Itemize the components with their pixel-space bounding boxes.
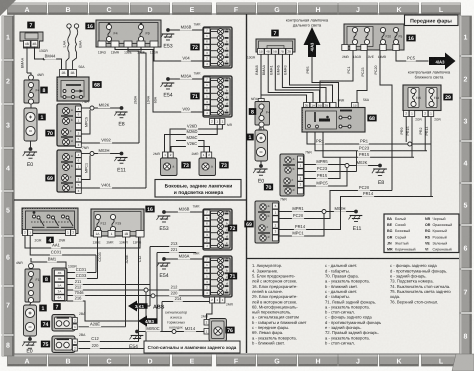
wire 213 bbox=[150, 241, 203, 247]
wire MPC1 bbox=[82, 156, 91, 180]
component label 69 right bbox=[244, 221, 253, 228]
splice M02K bbox=[82, 102, 124, 110]
wire BAA with connector circles bbox=[73, 24, 83, 70]
note: brake pad wear indicator bbox=[165, 311, 187, 330]
wire CC03 bbox=[67, 237, 102, 279]
component label 70 bbox=[45, 130, 54, 137]
wire PC23 (lamp) bbox=[304, 151, 357, 172]
component label 73 left bbox=[181, 162, 190, 169]
wire LAA with connector circles bbox=[63, 24, 72, 70]
stop switch 74 bbox=[41, 312, 86, 331]
wire PC23 bbox=[315, 132, 427, 151]
connector 7 (lamp plug) bbox=[20, 22, 48, 53]
arrow 4/A3 right (to low beam indicator) bbox=[429, 53, 456, 70]
component label 72 bbox=[190, 44, 199, 51]
section divider vertical bbox=[246, 14, 248, 353]
connector 7 (lower) bbox=[52, 265, 77, 311]
rear lamp connector 72 (right) bbox=[203, 27, 232, 68]
fuse box 16 (F12/F29) bbox=[91, 206, 155, 245]
caption: stop lamps and reversing lamps bbox=[144, 341, 240, 353]
rear lamp connector 71 (left) bbox=[203, 76, 232, 117]
wire 212 junction bbox=[144, 285, 203, 349]
wire 214 bbox=[162, 296, 220, 332]
ground E54 (lower section) / wire M26A bbox=[157, 252, 203, 280]
wire BMAA bbox=[262, 54, 313, 102]
ground E8 bbox=[114, 112, 127, 128]
lamp unit 69 (right side/rear lamps) bbox=[57, 146, 89, 193]
connector 71 lower bottom pins bbox=[210, 297, 234, 307]
battery 1 (right section) bbox=[246, 128, 267, 162]
wire BM45 bbox=[276, 54, 326, 102]
ground E0 (lower) bbox=[22, 336, 36, 355]
wire A28E bbox=[79, 237, 130, 327]
title box: front headlamps bbox=[405, 15, 459, 26]
component label 70 right bbox=[264, 184, 273, 191]
wire M26D bbox=[165, 125, 218, 153]
wire BM41 bbox=[269, 54, 319, 102]
wire PC20 bbox=[279, 185, 393, 219]
wire V26D bbox=[170, 124, 222, 153]
fuse box 5 (engine bay, right section) bbox=[249, 93, 270, 132]
splice M02H bbox=[82, 148, 124, 156]
wire BM48 bbox=[255, 54, 307, 102]
fuse box 8 (F4) bbox=[24, 73, 48, 104]
wire BM1 bbox=[31, 257, 66, 269]
wire MPC1 (right) bbox=[279, 214, 325, 237]
wire V26C bbox=[171, 141, 210, 152]
component label 73 right bbox=[219, 162, 228, 169]
lamp unit 70 (left side/rear lamps) bbox=[57, 100, 89, 147]
ground E54 (lower) bbox=[129, 336, 143, 351]
component label 72 lower bbox=[228, 225, 237, 232]
wire colour code box bbox=[384, 214, 459, 253]
wire PR1 bbox=[307, 132, 431, 146]
legend list bbox=[252, 263, 451, 345]
reverse switch 75 bbox=[41, 333, 86, 353]
battery 1 (lower) bbox=[24, 303, 47, 337]
wire V09 bbox=[115, 47, 203, 112]
component label 71 bbox=[190, 93, 199, 100]
fuse box 16 (F4/F9) bbox=[85, 20, 161, 55]
connector 71 bottom pins 2/1/1 bbox=[210, 119, 233, 128]
arrow 4/A3 up (to main beam indicator) bbox=[304, 27, 321, 57]
component label 71 lower bbox=[228, 273, 237, 280]
wire V401 bbox=[82, 183, 147, 189]
wire PR15 (lamp) bbox=[304, 157, 341, 179]
note: low beam indicator lamp bbox=[408, 70, 451, 80]
front lamp unit 69 (right section) bbox=[255, 198, 287, 244]
switch 68 (lighting switch) bbox=[57, 65, 102, 101]
arrow 4/B3 bbox=[138, 316, 158, 327]
wire MPC5 bbox=[82, 110, 91, 134]
wire V401 vertical bbox=[141, 47, 151, 188]
front lamp unit 70 (right section) bbox=[280, 151, 312, 197]
wire 212 / 221 vertical bbox=[67, 253, 157, 322]
wire BM43 bbox=[284, 54, 333, 102]
fuse box 16 (headlights) bbox=[342, 24, 416, 59]
ground E8 (right section) bbox=[372, 169, 387, 186]
wire V092 vertical bbox=[128, 47, 139, 143]
wire PC5 bbox=[396, 51, 429, 62]
wire PR9 bbox=[400, 117, 406, 143]
instrument cluster connector 7 bbox=[247, 30, 295, 60]
wire V04 bbox=[154, 47, 203, 61]
wire 216 bbox=[67, 296, 139, 322]
ground E53 (lower) / wire M26B bbox=[157, 205, 203, 233]
wire PR15 vertical label bbox=[406, 127, 410, 136]
ground E11 bbox=[114, 158, 127, 174]
high stop lamp 76 bbox=[201, 303, 226, 341]
wire 220 (switch 75) bbox=[79, 343, 147, 349]
wire PC20 vertical bbox=[374, 51, 392, 191]
wire PC23 vertical bbox=[357, 51, 367, 103]
ground E11 (right section) bbox=[349, 216, 363, 233]
legend panel top edge bbox=[247, 258, 459, 260]
rear lamp connector 71 (lower) bbox=[203, 256, 232, 297]
wire PR14 vertical label bbox=[425, 127, 429, 136]
ignition switch 4 bbox=[22, 208, 78, 244]
relay box 29 (F15/F14) bbox=[403, 85, 453, 122]
section divider horizontal left bbox=[14, 199, 247, 201]
arrow 3/K1 bbox=[128, 301, 165, 312]
ground E54 / wire M26A bbox=[161, 72, 203, 99]
wire MPR5 / splice M02K bbox=[304, 159, 382, 168]
note: main beam indicator lamp bbox=[286, 18, 329, 28]
wire PC1 bbox=[320, 51, 353, 103]
license plate lamp 73 (right) bbox=[192, 152, 216, 176]
wire M050C / M214 bbox=[135, 326, 204, 334]
wire M26C bbox=[176, 135, 204, 152]
caption: side and tail lamps bbox=[155, 180, 241, 198]
wire V092 bbox=[82, 138, 140, 144]
wire AA1 bbox=[25, 236, 140, 248]
wire PR14 bbox=[279, 117, 434, 230]
wire PR15 bbox=[323, 117, 414, 158]
fuse box 8 (F1) bbox=[16, 261, 50, 303]
battery 1 bbox=[24, 104, 46, 141]
wire MPR1 / splice M02H bbox=[279, 206, 358, 214]
wire MPC5 (lamp) bbox=[304, 168, 348, 187]
ground E0 bbox=[23, 141, 37, 168]
wire PR5 bbox=[306, 56, 339, 108]
ground E0 (right section) bbox=[253, 161, 267, 185]
multifunction switch 68 (right) bbox=[302, 98, 377, 132]
component label 69 bbox=[45, 175, 54, 182]
wire 221 bbox=[157, 247, 196, 253]
rear lamp connector 72 (lower) bbox=[203, 209, 232, 250]
license plate lamp 73 (left) bbox=[153, 152, 177, 176]
wire CC01 (connector) bbox=[67, 255, 96, 273]
wire 220 bbox=[151, 290, 211, 298]
wire CC01 bbox=[30, 236, 96, 255]
wire C12 bbox=[79, 237, 143, 342]
wire 211 / 213 vertical bbox=[67, 247, 150, 307]
wire PR2 bbox=[419, 117, 425, 151]
component label 76 bbox=[225, 327, 234, 334]
ground E53 / wire M26B bbox=[161, 23, 203, 50]
wire BM44 bbox=[35, 47, 62, 70]
wire BMAA bbox=[21, 47, 32, 76]
wire 7046 bbox=[67, 290, 153, 296]
